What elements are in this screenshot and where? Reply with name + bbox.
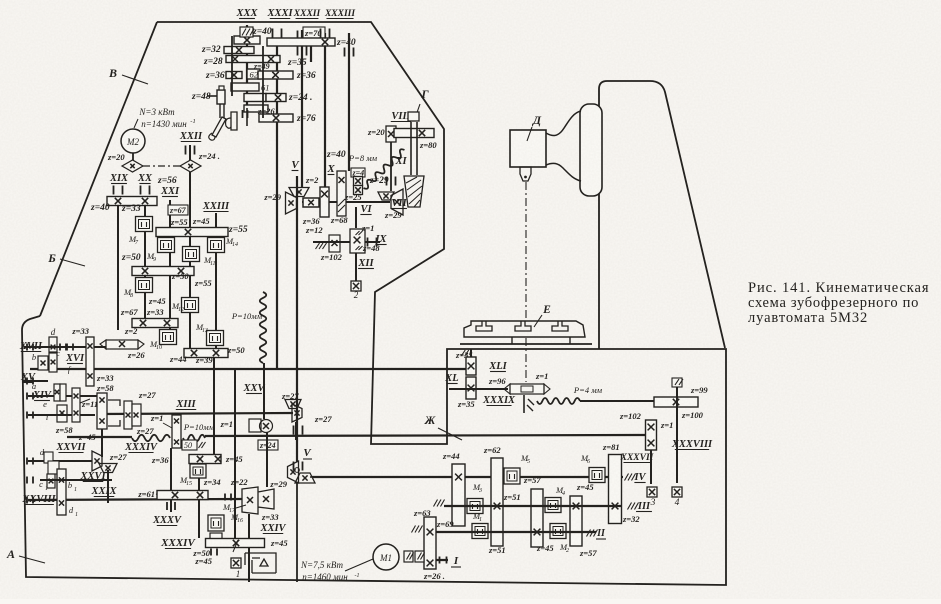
shaft I horiz <box>422 559 448 561</box>
shaft IX horizontal <box>313 241 350 243</box>
gear z57 tall <box>531 489 543 547</box>
boxx 4 <box>672 487 682 497</box>
shaft XXIII vertical <box>215 213 217 349</box>
II hatch <box>587 530 591 537</box>
gear block e <box>57 405 67 422</box>
tool holder <box>520 167 531 181</box>
z=4 boxed <box>351 168 365 177</box>
gear bar z=36 right <box>258 71 293 79</box>
clutch M1c <box>472 524 488 539</box>
bar z55-z45 <box>156 228 228 237</box>
gear block z58-45 <box>72 388 80 422</box>
feed screw spring P=10mm horizontal <box>132 435 170 441</box>
gear XL top <box>466 357 476 375</box>
gear z=70 label boxed <box>303 27 325 38</box>
bearing XIX top <box>114 186 123 195</box>
hatch top XXXVIII <box>672 378 682 387</box>
shaft VI line <box>346 201 390 203</box>
bar row3 <box>132 267 194 276</box>
vert x214 <box>213 357 215 455</box>
clutch M8 <box>136 278 153 293</box>
hob arbor <box>410 122 412 175</box>
boxx XII bottom <box>351 281 361 291</box>
clutch M15b <box>190 464 206 478</box>
dial circle <box>260 420 273 433</box>
gear z=32 bar <box>224 47 254 54</box>
clutch M12 <box>182 298 199 313</box>
bearing XXII <box>186 146 195 155</box>
bevel pair V bottom <box>288 461 299 483</box>
shaft y480 <box>40 479 112 481</box>
gear 61 box <box>231 83 259 91</box>
pulley on M2 <box>122 160 143 172</box>
gear z45 gb <box>570 496 582 546</box>
vert z27 <box>295 422 297 440</box>
bevel pair XXVII <box>92 451 102 471</box>
gear z81 tall <box>609 455 622 524</box>
bar z=45 left <box>189 455 221 464</box>
motor M2 circle <box>121 129 145 153</box>
gear block ae <box>54 384 60 401</box>
vertical VII <box>355 207 357 228</box>
gear z=36 bar left <box>226 72 242 79</box>
gear z44 tall <box>452 464 465 526</box>
gear XL bottom <box>466 377 476 399</box>
long shaft y366 <box>30 368 467 370</box>
motor M1 <box>373 544 399 570</box>
shaft XVII horiz <box>24 346 106 348</box>
shaft XXX vertical <box>246 25 248 110</box>
bevel pair XXV <box>285 400 301 409</box>
vert x264 <box>266 432 268 487</box>
bevel pair V top <box>289 188 309 197</box>
table base <box>460 343 592 345</box>
worm on XVII <box>106 340 138 349</box>
shaft XXXI vertical <box>301 30 303 188</box>
hob cutter hatched <box>404 176 424 207</box>
z=67 label boxed <box>168 205 188 215</box>
worm X body <box>337 171 346 216</box>
long shaft y477 <box>312 476 623 478</box>
coupling M1 <box>404 551 413 562</box>
gear blocks XXVIII <box>47 474 55 488</box>
gear z62 tall <box>491 458 503 546</box>
box 50 label <box>182 440 197 450</box>
spindle center line <box>525 182 527 320</box>
shaft XXVII horiz <box>28 460 92 462</box>
swing frame guitar <box>217 90 225 104</box>
shaft XXII vertical <box>189 145 191 160</box>
bottom bar XXIV <box>206 539 265 548</box>
M13 clutch <box>207 331 224 346</box>
shaft XIX vertical <box>117 206 119 330</box>
clutch M14 <box>208 238 225 253</box>
gear z=68 tall <box>320 187 329 217</box>
worm z96 <box>449 388 508 390</box>
gear bar top z=40 right <box>267 38 335 46</box>
differential center <box>97 393 107 429</box>
gear bar z=24 <box>244 94 266 102</box>
XXXVIII shaft vert <box>676 380 678 483</box>
vertical screw spring P=10mm <box>260 292 266 363</box>
machine bed outline <box>22 22 726 585</box>
shaft V vertical <box>296 176 298 462</box>
table E <box>464 321 585 337</box>
clutch M4 <box>545 498 561 513</box>
machine column <box>599 81 725 349</box>
shaft XIV horiz <box>28 395 97 397</box>
clutch M16 <box>208 515 224 531</box>
gear 62 box <box>247 69 260 79</box>
shaft XX vertical <box>144 206 146 322</box>
leadscrew spring <box>537 398 580 404</box>
z=24 boxed <box>258 440 278 450</box>
shaft XXIX long <box>28 499 242 500</box>
shaft XXI vertical <box>169 200 171 330</box>
clutch row2 b <box>183 247 200 262</box>
shaft II horiz <box>424 531 596 533</box>
clutch M6 <box>589 468 605 483</box>
worm box IX <box>350 229 365 253</box>
boxx 3 <box>647 487 657 497</box>
shaft III horiz <box>444 505 622 507</box>
shaft XXXII vertical <box>310 30 312 62</box>
gear z=26 bar <box>244 105 268 112</box>
VIII gear box <box>386 126 396 142</box>
column bracket <box>580 104 602 196</box>
clutch M3 <box>467 499 483 514</box>
cone clutch pair <box>242 487 274 514</box>
shaft XV horiz <box>23 380 48 382</box>
clutch row2 a <box>158 238 175 253</box>
bar row4 <box>132 319 178 328</box>
clutch M5 <box>504 468 520 484</box>
gear z=40 on XXX <box>234 36 260 44</box>
screw block 50 <box>172 415 181 448</box>
gear z102 <box>646 420 657 450</box>
M10 clutch <box>160 330 177 345</box>
gear block d <box>49 337 57 352</box>
shaft i horiz <box>28 414 95 416</box>
VIII bar <box>394 129 434 138</box>
belt dash line <box>143 165 180 167</box>
pulley z=24 on XXII <box>180 160 201 172</box>
clutch M2c <box>550 524 566 539</box>
gear stack d2 <box>44 452 53 463</box>
gear z=28 bar <box>226 56 280 63</box>
shaft XXXIII vertical <box>348 33 350 171</box>
long shaft y435 <box>67 436 132 438</box>
bevel pair VII <box>378 192 394 200</box>
gear z99 bar <box>654 397 698 407</box>
differential bracket <box>108 400 120 426</box>
z=1 dial box <box>249 419 261 432</box>
spindle head D body <box>546 111 581 181</box>
hatched coupling XXX top <box>240 27 253 37</box>
gear z33 idler tall <box>86 337 94 386</box>
bar row5 bottom <box>184 349 228 358</box>
clutch M7 <box>136 217 153 232</box>
bed outline left diagonal <box>40 22 157 316</box>
shaft XXV vertical <box>276 46 278 369</box>
gear small IX <box>329 235 340 252</box>
shaft XIII horizontal <box>97 413 293 414</box>
gear b <box>38 356 48 370</box>
vert x234 <box>234 370 236 538</box>
differential right block <box>124 401 132 429</box>
diff vertical link <box>101 429 103 457</box>
shaft stub verticals top box <box>231 36 233 96</box>
boxx bottom1 <box>231 558 241 568</box>
boxx z4 <box>354 177 363 186</box>
spring XI <box>361 148 406 191</box>
shaft XII vertical <box>355 253 357 282</box>
shaft 3 vert <box>650 450 652 484</box>
clamp bracket 1 <box>245 553 276 573</box>
break marks <box>527 399 534 411</box>
top bar XIX-XX <box>107 197 157 206</box>
vert x196 down <box>198 503 200 538</box>
vert x108 down <box>107 470 109 503</box>
wall bearings left <box>27 344 33 351</box>
gear bar z=76 <box>259 114 293 122</box>
